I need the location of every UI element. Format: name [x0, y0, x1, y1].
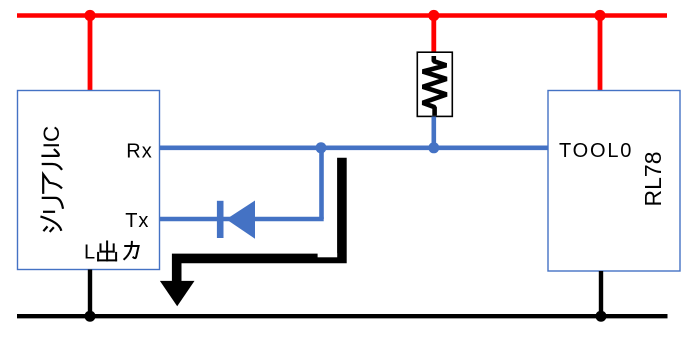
wire: vertical from Rx net down to Tx net (blue) — [319, 148, 324, 219]
junction dot (Rx / resistor) — [428, 142, 439, 153]
katakana ru — [43, 164, 62, 169]
svg-text:Rx: Rx — [126, 140, 152, 162]
wire: black stub from serial IC to ground rail — [88, 270, 92, 317]
ground rail (bottom, black) — [17, 314, 668, 318]
junction dot (ground / serial IC) — [85, 311, 96, 322]
junction dot (VDD / RL78) — [594, 10, 605, 21]
resistor R1 body box — [417, 52, 452, 116]
wire: black stub from RL78 to ground rail — [599, 271, 603, 316]
svg-text:Tx: Tx — [125, 210, 149, 232]
wire: red stub from rail to RL78 box — [598, 16, 603, 91]
label シリアルIC (rotated) — [39, 126, 64, 231]
katakana ri — [44, 211, 54, 213]
IC U1 serial IC box — [18, 91, 160, 270]
resistor R1 zigzag — [423, 56, 447, 116]
wire: red stub from rail to serial IC box — [88, 16, 93, 91]
svg-text:RL78: RL78 — [640, 152, 666, 207]
wire: Tx net from serial IC to vertical (blue) — [160, 217, 324, 222]
junction dot (VDD / resistor) — [428, 10, 439, 21]
diode D1 anode triangle — [226, 201, 255, 239]
IC U2 RL78 box — [548, 91, 680, 272]
label RL78 (rotated) — [640, 152, 666, 207]
signal path arrowhead — [160, 281, 195, 306]
svg-text:L: L — [84, 242, 95, 264]
katakana shi — [44, 227, 47, 230]
svg-text:TOOL0: TOOL0 — [559, 140, 633, 162]
kanji 力 — [125, 246, 138, 258]
katakana a — [43, 174, 61, 193]
diode D1 cathode bar — [217, 201, 224, 238]
VDD power rail (top, red) — [17, 13, 667, 18]
wire: red stub from rail to resistor R1 — [431, 16, 436, 57]
wire: Rx net from serial IC to TOOL0 (blue) — [160, 146, 549, 151]
junction dot (VDD / serial IC) — [84, 10, 95, 21]
svg-text:IC: IC — [39, 126, 64, 149]
wire: blue stub from resistor R1 to Rx net — [431, 117, 436, 148]
kanji 出 — [106, 242, 108, 261]
junction dot (ground / RL78) — [596, 311, 607, 322]
signal path thick arrow (black elbow) — [177, 158, 342, 284]
signal path elbow notch — [318, 253, 338, 257]
junction dot (Rx / Tx vertical) — [316, 142, 327, 153]
